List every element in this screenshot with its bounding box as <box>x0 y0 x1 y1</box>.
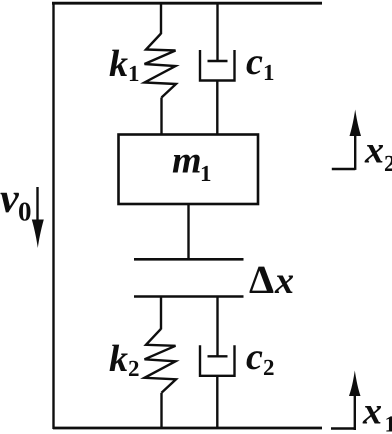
label k2 <box>109 338 140 381</box>
wire left wall <box>52 2 54 429</box>
wire damper c2 top rod <box>216 297 218 357</box>
svg-text:Δ: Δ <box>249 257 274 302</box>
spring k2 <box>145 329 177 393</box>
arrowhead x2 <box>350 110 362 137</box>
damper c2 piston <box>208 355 228 357</box>
arrowhead v0 <box>32 220 44 249</box>
svg-text:2: 2 <box>263 355 275 380</box>
svg-text:0: 0 <box>18 197 32 227</box>
mass m1 <box>119 135 259 205</box>
svg-text:1: 1 <box>200 161 212 186</box>
damper c2 cylinder <box>200 345 235 376</box>
wire mass to plate rod <box>187 204 189 259</box>
wire bottom wall <box>53 427 322 430</box>
label x2 <box>364 130 392 177</box>
wire x2 datum foot <box>332 168 355 170</box>
svg-text:1: 1 <box>263 60 275 85</box>
wire damper c2 bottom rod <box>216 376 218 428</box>
label x1 <box>362 391 392 434</box>
arrowhead x1 <box>349 371 361 397</box>
svg-text:c: c <box>246 336 263 378</box>
node lower plate <box>134 295 244 298</box>
wire v0 arrow shaft <box>36 187 38 222</box>
wire damper c1 top rod <box>216 3 218 61</box>
svg-text:2: 2 <box>384 151 392 176</box>
wire spring k1 bottom rod <box>160 98 162 136</box>
svg-text:x: x <box>362 391 382 433</box>
wire spring k2 bottom rod <box>160 393 162 428</box>
wire x1 arrow shaft <box>354 393 356 430</box>
wire spring k2 top rod <box>160 297 162 330</box>
svg-text:k: k <box>109 43 128 85</box>
node upper plate <box>134 258 244 261</box>
wire x1 datum foot <box>331 427 355 429</box>
svg-text:2: 2 <box>128 356 140 381</box>
label delta-x <box>249 257 294 302</box>
spring k1 <box>145 34 177 98</box>
wire top wall <box>52 2 322 5</box>
svg-text:k: k <box>109 338 128 380</box>
damper c1 cylinder <box>200 50 235 81</box>
svg-text:x: x <box>364 130 384 172</box>
wire x2 arrow shaft <box>354 133 356 170</box>
label c1 <box>246 41 275 85</box>
svg-text:1: 1 <box>385 412 392 434</box>
label k1 <box>109 43 140 86</box>
svg-text:1: 1 <box>128 61 140 86</box>
wire damper c1 bottom rod <box>216 81 218 136</box>
svg-text:m: m <box>172 140 202 182</box>
label c2 <box>246 336 275 380</box>
label m1 <box>172 140 212 187</box>
svg-text:v: v <box>0 176 20 222</box>
wire spring k1 top rod <box>160 3 162 34</box>
svg-text:c: c <box>246 41 263 83</box>
damper c1 piston <box>208 60 228 62</box>
label v0 <box>0 176 32 227</box>
svg-text:x: x <box>274 260 294 302</box>
